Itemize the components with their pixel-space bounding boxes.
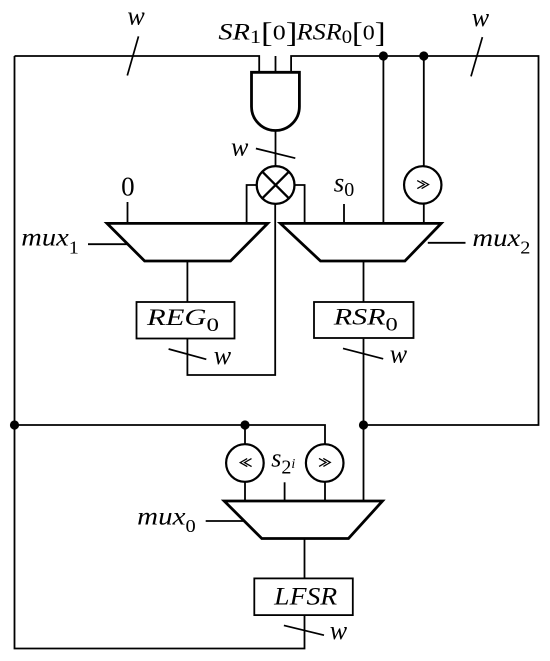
svg-text:w: w (472, 3, 490, 32)
svg-text:LFSR: LFSR (273, 584, 337, 611)
svg-text:0: 0 (121, 172, 135, 202)
svg-text:w: w (390, 340, 408, 369)
svg-text:w: w (214, 341, 232, 370)
svg-text:w: w (127, 2, 145, 31)
svg-text:w: w (330, 616, 348, 645)
svg-text:w: w (231, 133, 249, 162)
svg-text:RSR0[0]: RSR0[0] (295, 17, 385, 49)
